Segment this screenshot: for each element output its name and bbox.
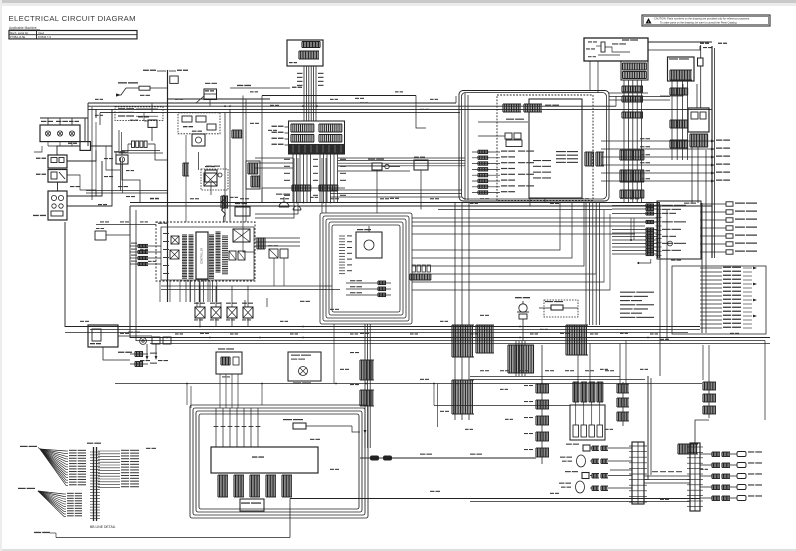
ground arrow at fusible link [118,88,126,95]
tick cluster on x365 bundle [359,360,361,380]
terminal box RB2 [657,201,701,259]
stub labels left of assembly [285,126,289,128]
stacked column x540 labels [524,385,528,386]
wires exiting assembly left [255,157,293,159]
junction dots on bus y202 [296,202,298,204]
controller left pin column B [189,234,194,236]
controller inner enclosure [161,227,254,280]
label BATT right top [700,43,704,44]
lamp L3 [69,131,74,136]
wires y383 drops [186,384,188,406]
label B-30 [146,448,151,449]
bb bus bar [93,447,95,521]
relay RB1 inner parts [601,42,605,52]
fuse block sub box [240,499,264,511]
wire bb-line horizontal [56,537,290,539]
resistor dashed box [544,300,578,317]
alternator box [48,191,67,220]
bundle below assembly left [292,154,294,203]
bundle x365 labels [350,352,354,353]
junction inner box rows [533,160,541,161]
page top edge shading [0,0,796,3]
circuit breaker unit [668,57,695,81]
vertical pair x243-246 [242,96,244,223]
bundle lower tick clusters [291,185,293,191]
meter harness bundle [303,66,305,121]
loop inner relay unit [356,232,382,258]
verticals bus to bottom clusters [577,338,579,383]
main junction inner unit [529,99,582,198]
rows right of TB2 [700,453,712,455]
page bottom edge shading [0,549,796,551]
wires controller to relay row [196,302,198,307]
applicable machine table [9,31,137,39]
right vertical bus pair [701,203,703,333]
LS unit box [88,325,118,347]
dense bar x222 [220,196,222,208]
vertical bundle x590 [585,203,587,325]
wires TB1 to left [610,469,632,471]
bundle below relay box [623,80,625,203]
resistor R1 vertical [222,195,226,217]
wire row labels right band [640,138,645,139]
RB2 left bus bar [657,202,659,258]
controller xbox 3 [233,229,250,242]
relay row K3-K6 [195,307,205,318]
right column cluster x248 [246,161,260,189]
right terminal rows upper [700,203,726,205]
controller xbox 2 [170,250,179,259]
bundle connector bands [621,86,623,92]
junction small boxes row [505,133,512,139]
mid horizontal bus y337-344 [130,337,770,339]
controller dashed enclosure [156,222,255,281]
controller right pin column A [209,234,214,236]
solenoid symbol lower center [293,423,306,429]
diode group D3 [132,141,135,147]
wire name annotations [140,95,145,96]
mid-right connector columns [454,203,456,420]
svg-text:ELECTRICAL CIRCUIT DIAGRAM: ELECTRICAL CIRCUIT DIAGRAM [9,14,136,23]
unit boxes right of controller [269,249,278,258]
vertical wire x648 [647,376,649,480]
junction top connector pairs [502,104,504,112]
mid right dense cluster A [451,325,453,357]
staircase wires to right bus [412,217,657,219]
relay box RB1 [584,38,648,61]
small box left of controller [95,231,106,240]
starter motor box [48,155,67,168]
vertical x262 [261,96,263,203]
RB2 input rows [612,205,657,207]
pressure switch circle [140,338,147,345]
controller inner labels [163,233,169,234]
svg-text:To order parts on the drawing,: To order parts on the drawing, be sure t… [660,21,737,25]
washer motor M2 [576,481,585,493]
fan 1 source label [20,446,28,447]
dense cluster x520 [507,345,509,373]
fan 2 source label [18,488,26,489]
nested harness loops center [320,213,412,324]
fuse F1 box [170,76,178,83]
wire labels bottom band [480,370,484,371]
junction dots mid bus [166,337,168,339]
junction sub box [506,140,522,147]
junction box label rows [472,151,500,153]
right terminal rows lower [700,267,722,269]
bundle below breaker [671,81,673,160]
wire top-left weave 5 [198,152,200,170]
label alternator [33,215,39,216]
wire top-left weave 7 [223,217,225,222]
junction right tick clusters [584,152,586,166]
bus junction dots [167,105,169,107]
svg-text:CAUTION: Parts numbers on the: CAUTION: Parts numbers on the drawing ar… [654,17,750,21]
middle-left vertical drops [129,206,131,338]
RB2 bottom stub [640,259,651,263]
wire center to big box [416,96,426,129]
relay K2 with coil [148,120,157,127]
wires LS unit [103,347,130,360]
controller right exits [255,237,300,239]
wire breaker to box [660,84,683,96]
bundle tick labels [297,73,303,74]
link wires loop to bundle [609,92,648,94]
dashed fuse group box D1 [115,107,163,121]
relay K8 dashed group [201,169,228,190]
wires TB2 up [695,420,709,443]
vertical pair x120 mid-left [120,158,122,191]
diode row center [412,265,415,272]
meter unit box [287,40,323,66]
relay K1 box [116,155,128,164]
unit box U2 [205,170,217,182]
stacked connector column x540 [535,384,537,393]
wires battery relay [84,118,86,142]
wire right edge vertical [764,341,766,421]
verticals below controller [159,281,161,302]
svg-text:P70BA-2LSE: P70BA-2LSE [10,35,26,39]
fusible link FL1 [139,86,150,90]
controller xbox 5 [238,251,245,260]
breaker bundle bands [669,88,671,95]
controller xbox 4 [229,251,236,260]
wire center down [420,170,422,210]
wires RB1 down to loop [589,61,591,91]
svg-text:Mach. serial No.: Mach. serial No. [10,31,29,35]
mid horizontal bus y326-332 [65,326,700,328]
wires starter-alternator [57,182,59,191]
motor connector pairs [591,446,593,451]
lamp L1 [45,131,50,136]
assembly tick row mid [290,135,292,143]
unit box lower-left B [288,352,321,381]
unit box lower-left A [216,352,242,374]
mid right dense cluster C [475,325,477,353]
dense cluster x232 y130 [231,130,233,138]
nested corner wires right of center [412,203,560,250]
top bus wires [88,102,456,104]
main junction dashed box [497,95,593,201]
right long vertical x667 [666,210,668,340]
wires right of controller [264,238,266,249]
starter sub box [48,170,67,183]
dense cluster at TB2 top [677,444,679,454]
stacked connector column x708 [702,382,704,390]
vertical bundle x520 [515,341,517,376]
controller xbox 1 [171,236,179,244]
vertical bundle x365 lower [364,324,366,448]
center small box x417 y165 [414,160,428,170]
mid right dense cluster B [451,380,453,414]
wires box A down [219,374,221,408]
wire rows exiting right to terminals [601,140,713,142]
bundle lower labels [284,159,290,160]
mid wires between bars [644,475,690,477]
battery right vertical wire [711,46,713,258]
solenoid fan 1 [40,449,66,451]
unit box U3 [235,207,250,216]
wire relay box feed [615,96,617,106]
small switch boxes [152,337,160,344]
controller right pin column B [216,231,221,233]
bus below controller [161,285,332,287]
loop inner rows [346,282,391,284]
mid-left label haze [104,158,108,159]
right lower arrows [753,267,757,270]
wires left mesh 2 [122,164,140,203]
wire y383 long bus [115,383,702,385]
wire right band verticals [630,218,632,240]
bus below box leftward [330,189,462,191]
svg-text:!: ! [648,20,649,24]
loop inner tick column [339,235,345,237]
terminal bar TB1 [632,442,644,504]
dashed fuse group box D2 [178,113,220,134]
tick cluster right of controller [256,238,258,249]
left connector row pair x130 [130,353,148,355]
wiper motor M1 [577,455,586,467]
junction right text block [556,151,566,152]
svg-text:BB LINE DETAIL: BB LINE DETAIL [90,525,116,529]
battery relay box [80,142,91,151]
outer harness loop around main box [459,91,609,202]
wire box bottom to bus [529,198,531,206]
wire top-left weave 6 [210,182,212,195]
fuse block wide box [211,447,318,473]
right small fuse box [698,58,704,66]
lamp box bottom stubs [47,142,49,146]
fuse box F2 [204,89,217,100]
middle bus labels [150,198,154,199]
bottom labels of junction box [497,200,502,201]
wire y224 to controller [96,224,156,226]
long wire lower y498 [290,498,700,500]
wires into fuse block top [215,408,217,447]
monitor lamp box [40,125,80,142]
fuse block bottom connector columns [217,475,219,497]
small unit x205 y89 wires [209,100,211,107]
caution note box [642,15,770,26]
room lamp symbol [519,304,527,312]
bus tiny labels [95,99,99,100]
relay box sub connector box [621,61,648,80]
connector assembly frame [289,121,345,154]
assembly dark band [289,144,345,154]
fuse unit right side [688,108,709,132]
wire mid weave 8 [243,222,255,252]
middle bus wires y202 [130,202,660,204]
border around right lower band [672,266,766,334]
harness block to controller [255,158,294,218]
solenoid fan 2 [38,491,64,494]
controller main unit [196,232,208,279]
junction row glow plug [478,121,528,123]
wires exiting assembly right [338,165,400,167]
horizontal wires bottom band [470,376,620,378]
wires relay box to battery line [648,41,712,43]
controller right tick column C [222,235,228,237]
wires fuse unit right [696,84,698,108]
connector group box x572 [570,405,605,440]
RB2 inner labels [662,205,673,206]
bus pair left y190 [86,190,168,192]
bb right label column [98,450,120,452]
horn H2 [293,206,301,210]
svg-text:CONTROLLER: CONTROLLER [201,248,204,265]
bundle below assembly right [319,154,321,203]
long wire lower y501 [470,501,690,503]
lamp L2 [57,131,62,136]
wire loop bottom right [699,460,701,499]
left loop verticals x92-96 [91,107,93,200]
left bus verticals of loop [464,93,466,200]
switch box S1 [583,445,590,451]
label BATT right [169,70,176,72]
left area mesh wires [34,146,42,152]
loop inner tick labels [347,235,352,236]
wire pull relay down [376,170,378,213]
wire big loop left [262,188,345,203]
text block annotations [620,292,635,293]
relay K7 [192,134,205,146]
tick column x184 [182,163,184,176]
junction dots y383 [186,383,188,385]
battery feed vertical wire [167,70,169,302]
horn H1 [279,202,289,207]
harness loop top-left [119,130,163,153]
assembly tick row upper [290,124,292,132]
svg-text:Used: Used [38,31,45,35]
controller bottom wires [185,280,187,302]
harness block down to loops [321,158,323,213]
svg-text:Applicable Machine: Applicable Machine [9,26,37,30]
inline connector pair [370,456,379,461]
stacked connector column x620 [616,384,618,393]
RB2 inner circle part [668,241,673,246]
lower nested harness loops [190,405,368,518]
bottom left stub label [34,532,41,533]
dense cluster x575 [565,325,567,355]
pull relay unit [372,163,382,170]
wire bus to box 2 [455,96,457,103]
label BATT left [143,70,149,71]
controller left pin column A [182,234,187,236]
left vertical drops from top bus [95,109,97,118]
svg-text:P/2530.7-S: P/2530.7-S [38,35,51,39]
switch box S2 [582,473,589,479]
terminal bar TB2 [690,443,700,511]
right long vertical x660 [659,206,661,376]
bus into box from left y158-166 [338,157,465,159]
wire relay K2 [151,127,153,141]
left connector rows at controller [130,245,161,247]
mid bus labels [175,333,179,334]
